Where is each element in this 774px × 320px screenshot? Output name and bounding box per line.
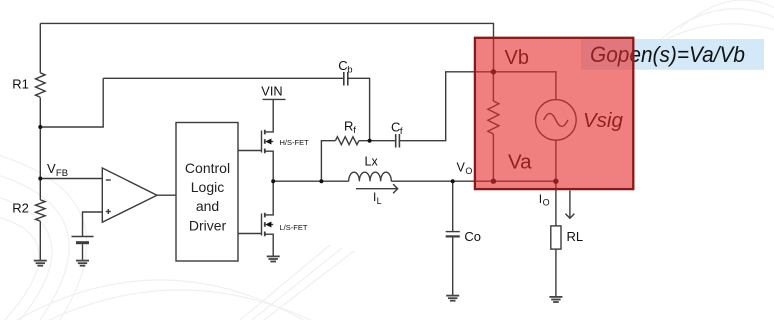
wire Cb to corner	[348, 78, 370, 140]
transistor Q2 L/S-FET	[261, 214, 263, 236]
wire Vsig bottom	[555, 140, 557, 181]
svg-text:FB: FB	[56, 168, 68, 179]
wire Cf to Vb	[399, 72, 493, 141]
wire top feedback from Vb to R1	[40, 23, 493, 71]
svg-text:O: O	[465, 166, 472, 176]
battery reference	[72, 236, 94, 238]
wire Vsig node to RL	[555, 181, 557, 226]
svg-text:RL: RL	[567, 229, 584, 244]
svg-text:H/S-FET: H/S-FET	[280, 138, 310, 147]
resistor R1	[36, 73, 46, 97]
node Vo	[451, 179, 455, 183]
ground RL	[549, 296, 562, 298]
op-amp minus sign	[106, 179, 111, 181]
junction dots	[38, 69, 558, 184]
resistor Rf	[335, 137, 358, 145]
transistor Q1 H/S-FET	[261, 131, 263, 153]
svg-text:Control: Control	[185, 160, 230, 176]
node Rf tap	[319, 179, 323, 183]
body arrow L/S-FET	[265, 222, 271, 228]
formula background box	[581, 39, 764, 70]
svg-text:Co: Co	[464, 229, 481, 244]
svg-text:L/S-FET: L/S-FET	[280, 223, 308, 232]
ground symbols	[34, 256, 563, 302]
wire Rf branch riser	[321, 141, 335, 182]
svg-text:R: R	[344, 118, 353, 133]
capacitor Cf	[396, 134, 400, 148]
wire R1 top lead	[39, 23, 41, 72]
wire op-amp output	[157, 194, 176, 196]
resistor R2	[36, 200, 46, 221]
svg-text:and: and	[196, 198, 219, 214]
svg-text:f: f	[353, 125, 356, 136]
ground R2	[34, 260, 47, 262]
wire Co to ground	[452, 236, 454, 295]
control logic box	[176, 123, 238, 262]
wire Vo to Co	[452, 181, 454, 231]
source Vsig	[536, 100, 577, 141]
svg-text:Driver: Driver	[189, 217, 227, 233]
wire Rf to node	[359, 140, 396, 142]
inductor Lx	[349, 172, 392, 181]
wire node to riser	[40, 78, 103, 127]
wire rail Lx to Vsig node	[391, 180, 556, 182]
wire VFB branch	[39, 127, 41, 179]
op-amp plus sign	[106, 209, 111, 214]
node Rf-Cf	[368, 139, 372, 143]
ground battery	[76, 260, 89, 262]
arrowhead Io	[565, 214, 574, 219]
control box text	[185, 160, 230, 233]
svg-text:f: f	[400, 126, 403, 137]
svg-text:L: L	[377, 196, 382, 206]
node Vb	[491, 69, 496, 74]
capacitor Co	[446, 231, 460, 233]
wire VFB to op-amp	[40, 178, 102, 180]
svg-text:Lx: Lx	[365, 154, 379, 168]
svg-text:VIN: VIN	[261, 84, 282, 99]
wire gate L/S	[238, 233, 262, 235]
svg-text:R1: R1	[12, 77, 29, 92]
wire to Cb	[103, 77, 344, 79]
wire Vb to Vsig top	[493, 72, 556, 100]
ground Co	[446, 295, 459, 297]
current arrow IL	[356, 184, 398, 193]
wire op-amp plus input	[83, 212, 103, 236]
wire R2 bottom lead	[39, 221, 41, 260]
svg-text:O: O	[543, 198, 550, 208]
wire RL to ground	[555, 249, 557, 296]
capacitor Cb	[344, 72, 348, 86]
wire R2 top lead	[39, 179, 41, 200]
wire gate H/S	[238, 150, 262, 152]
wire switch rail left	[273, 180, 349, 182]
VIN supply bar	[263, 98, 286, 100]
current arrow Io	[569, 191, 571, 219]
resistor Rsense inside box	[492, 72, 494, 101]
wire battery to ground	[82, 244, 84, 260]
body arrow H/S-FET	[265, 139, 271, 145]
node Vsig bottom	[553, 179, 558, 184]
wire R1 bottom lead	[39, 98, 41, 128]
node switch	[271, 179, 275, 183]
red probe overlay box	[475, 38, 633, 189]
node Va	[491, 179, 496, 184]
ground L/S-FET	[267, 255, 280, 257]
node VFB	[38, 177, 42, 181]
svg-text:b: b	[347, 65, 352, 76]
op-amp U1	[102, 168, 157, 222]
node R1 bottom	[38, 125, 42, 129]
svg-text:V: V	[457, 161, 466, 175]
svg-text:V: V	[47, 161, 56, 176]
resistor RL	[551, 226, 561, 249]
svg-text:Logic: Logic	[191, 179, 224, 195]
svg-text:R2: R2	[12, 201, 29, 216]
